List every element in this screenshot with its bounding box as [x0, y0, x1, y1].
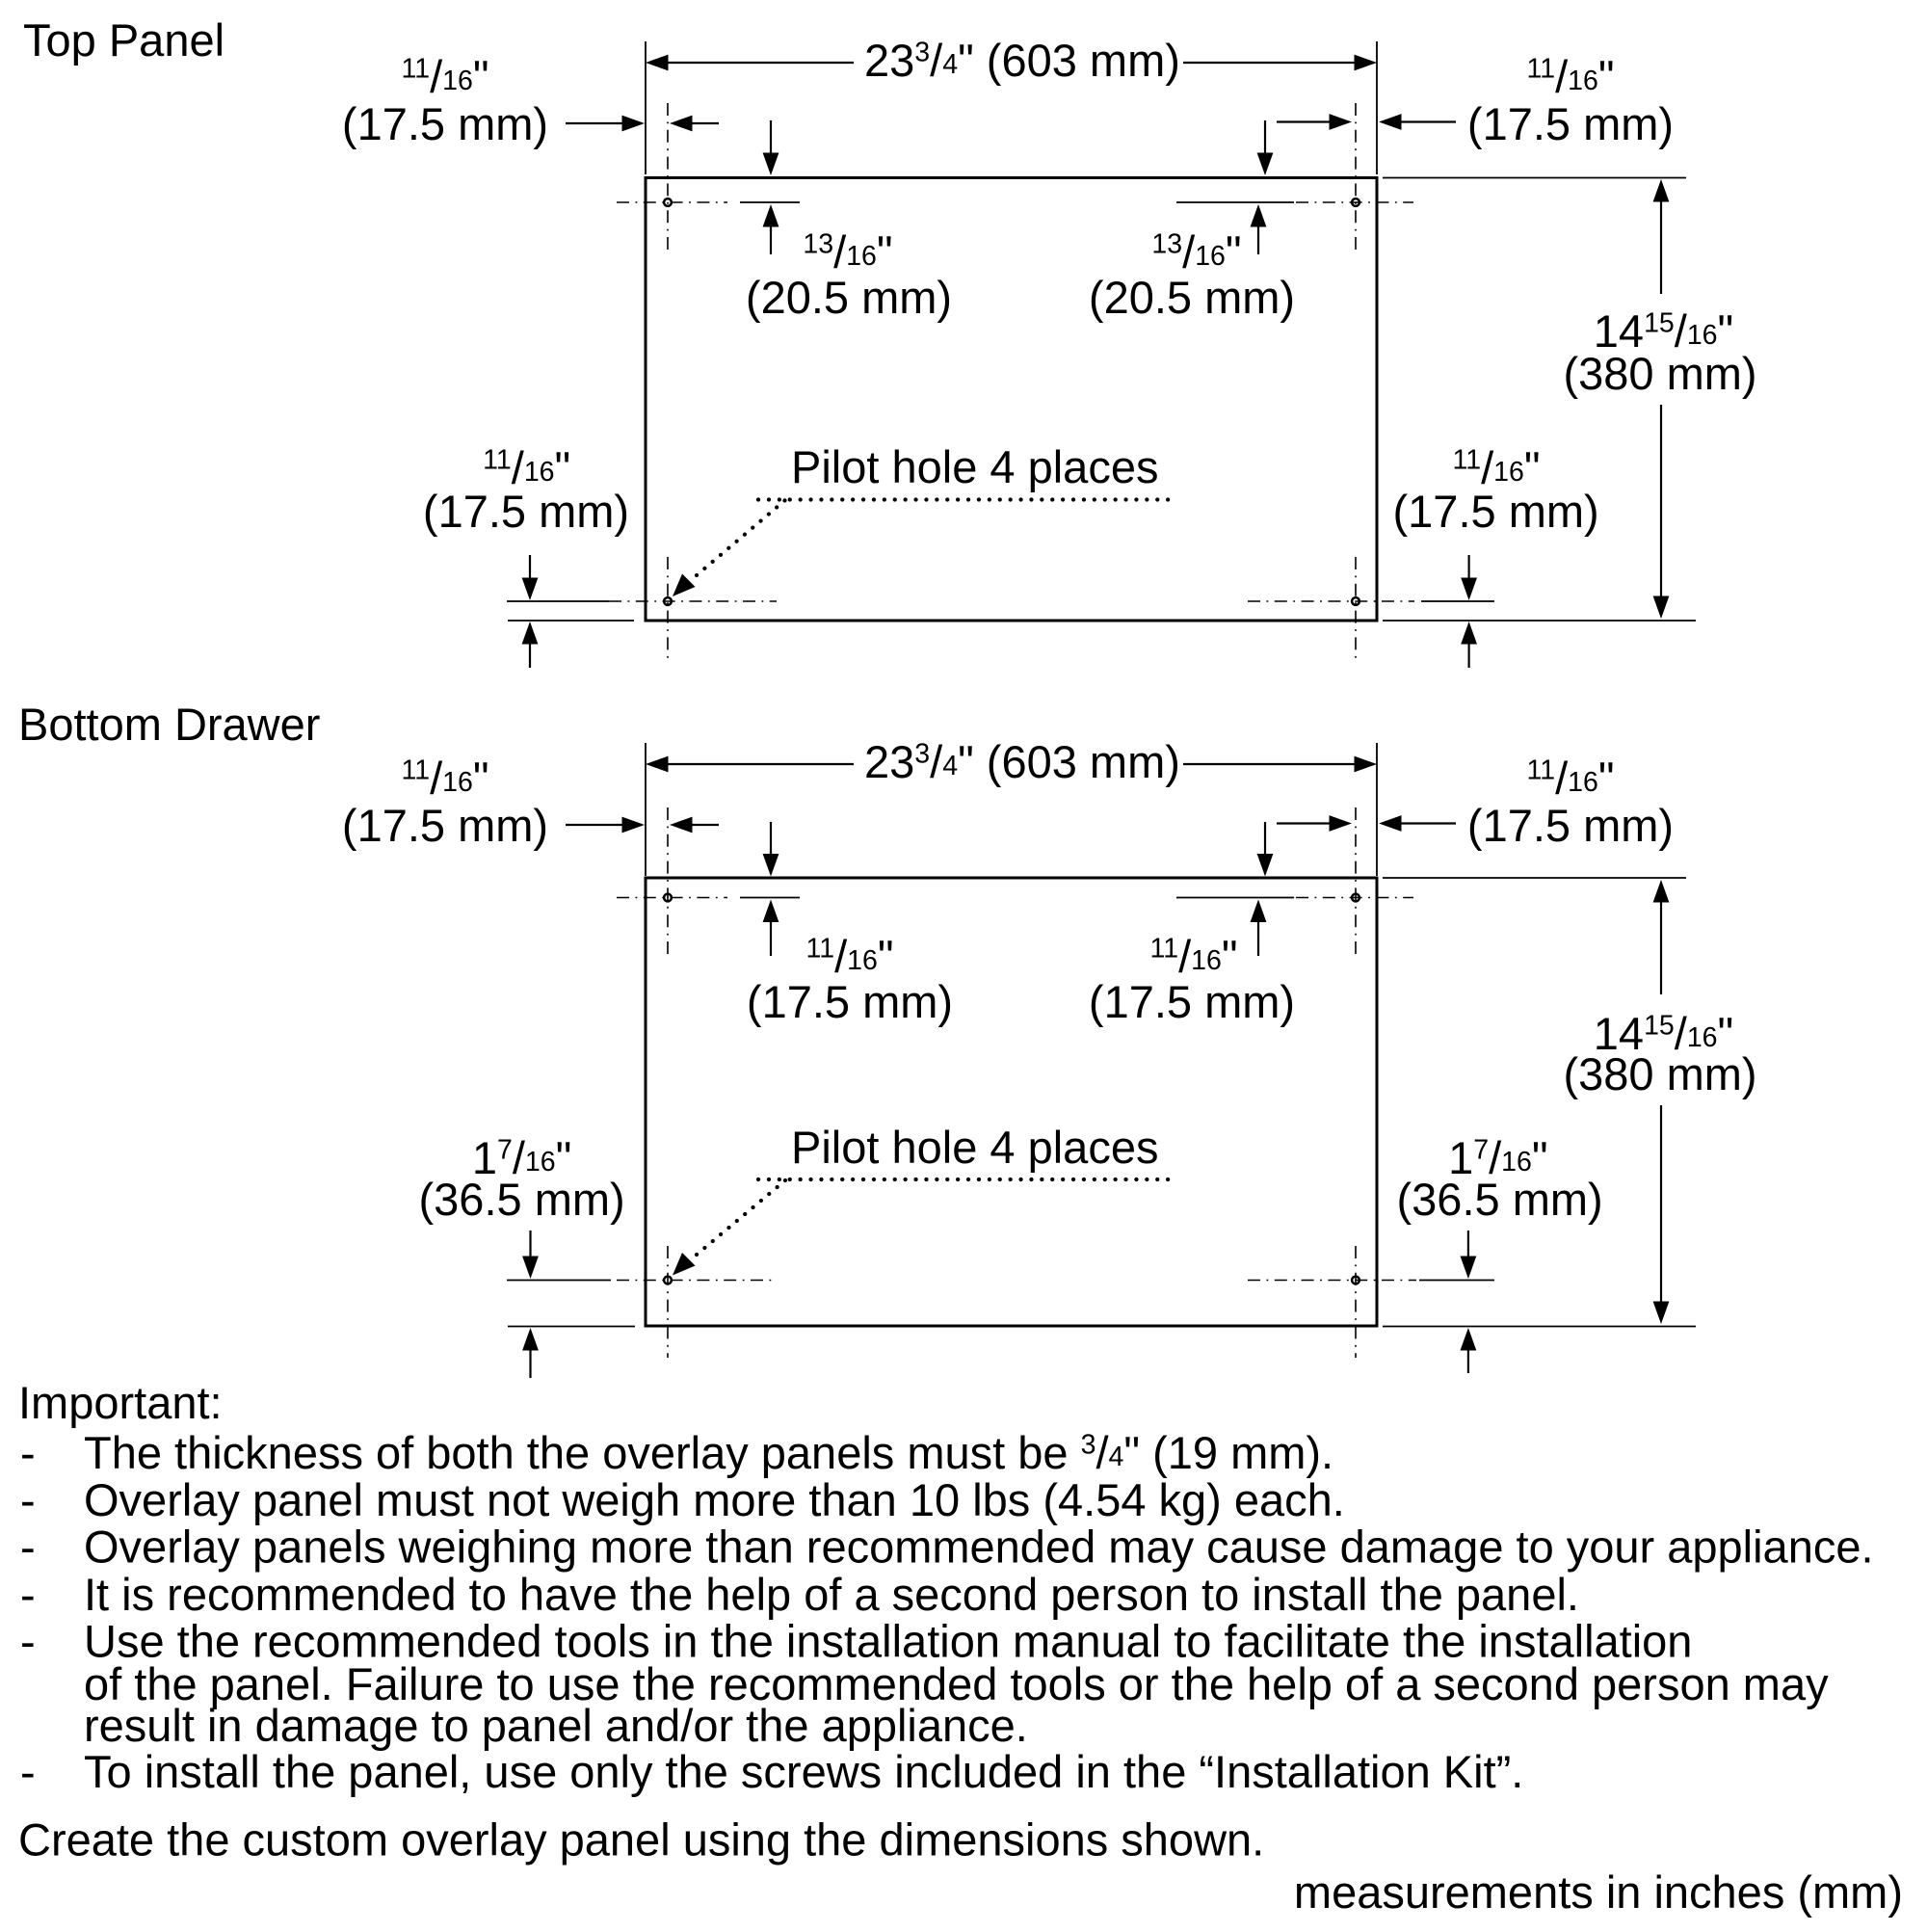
svg-text:(380 mm): (380 mm) — [1563, 348, 1756, 399]
extension line right for width dim — [1376, 41, 1378, 174]
top panel overlay rectangle — [646, 178, 1377, 622]
dimension line at bottom-right hole level — [1421, 600, 1494, 602]
svg-text:Create the custom overlay pane: Create the custom overlay panel using th… — [18, 1814, 1264, 1866]
svg-text:-: - — [20, 1746, 36, 1797]
centerline horizontal bottom-right hole — [1248, 600, 1414, 602]
svg-text:It is recommended to have the: It is recommended to have the help of a … — [84, 1569, 1579, 1620]
extension line left for width dim — [645, 41, 647, 174]
svg-text:(17.5 mm): (17.5 mm) — [1393, 486, 1599, 537]
arrow pointing left at top-left hole centerline — [670, 116, 693, 132]
up arrow to top-right hole line (drawer) — [1251, 900, 1267, 923]
up arrow to top-left hole line — [763, 204, 779, 227]
arrow pointing right at top-right hole centerline — [1330, 114, 1353, 130]
dimension line at top-right hole level (drawer) — [1176, 897, 1294, 899]
height dimension upper segment with up arrow (drawer) — [1653, 880, 1670, 903]
extension line bottom for height dim — [1383, 620, 1696, 622]
svg-text:Overlay panels weighing more t: Overlay panels weighing more than recomm… — [84, 1522, 1874, 1573]
height dimension upper segment with up arrow — [1653, 179, 1670, 202]
arrow pointing right at left extension line (drawer) — [622, 817, 646, 834]
svg-text:-: - — [20, 1474, 36, 1525]
svg-text:(17.5 mm): (17.5 mm) — [423, 486, 629, 537]
svg-text:-: - — [20, 1522, 36, 1573]
svg-text:233/4" (603 mm): 233/4" (603 mm) — [864, 35, 1180, 86]
svg-text:To install the panel, use only: To install the panel, use only the screw… — [84, 1746, 1523, 1797]
svg-text:-: - — [20, 1569, 36, 1620]
dimension line at top-right hole level — [1176, 201, 1294, 203]
svg-text:measurements in inches (mm): measurements in inches (mm) — [1294, 1866, 1903, 1918]
svg-text:(17.5 mm): (17.5 mm) — [747, 976, 953, 1027]
down arrow to bottom-left hole line (drawer) — [522, 1257, 539, 1280]
up arrow to top-right hole line — [1251, 204, 1267, 227]
pilot hole top-right (drawer) — [1352, 894, 1359, 902]
svg-text:233/4" (603 mm): 233/4" (603 mm) — [864, 736, 1180, 787]
centerline horizontal bottom-left hole — [609, 600, 777, 602]
dotted underline of pilot hole label — [758, 497, 1174, 501]
extension line left for width dim (drawer) — [645, 743, 647, 876]
pilot hole bottom-left (drawer) — [664, 1277, 672, 1284]
centerline vertical bottom-right hole — [1355, 557, 1357, 663]
centerline horizontal top-left hole — [617, 201, 727, 203]
up arrow to bottom edge right — [1461, 622, 1477, 645]
dimension line at bottom-left hole level (drawer) — [507, 1280, 611, 1282]
up arrow to top-left hole line (drawer) — [763, 900, 779, 923]
centerline vertical top-right hole — [1355, 103, 1357, 255]
centerline vertical bottom-left hole — [667, 557, 669, 663]
centerline horizontal top-left hole (drawer) — [617, 897, 727, 899]
arrow pointing left at right extension line — [1379, 114, 1402, 130]
down arrow to top edge left — [763, 153, 779, 176]
leader arrowhead at bottom-left hole (drawer) — [673, 1253, 696, 1276]
centerline vertical bottom-right hole (drawer) — [1355, 1246, 1357, 1358]
down arrow to bottom-right hole line (drawer) — [1461, 1257, 1477, 1280]
svg-text:(36.5 mm): (36.5 mm) — [419, 1174, 625, 1225]
dotted leader to bottom-left hole — [697, 500, 785, 575]
svg-text:(20.5 mm): (20.5 mm) — [1089, 272, 1295, 323]
svg-text:(17.5 mm): (17.5 mm) — [342, 98, 548, 149]
svg-text:-: - — [20, 1616, 36, 1667]
extension line top for height dim — [1383, 177, 1686, 179]
centerline horizontal top-right hole (drawer) — [1296, 897, 1413, 899]
centerline horizontal top-right hole — [1296, 201, 1413, 203]
arrow pointing left at top-left hole centerline (drawer) — [670, 817, 693, 834]
svg-text:Pilot hole 4 places: Pilot hole 4 places — [791, 1122, 1158, 1173]
extension line bottom for height dim (drawer) — [1383, 1326, 1696, 1328]
dimension line at top-left hole level — [740, 201, 800, 203]
svg-text:Pilot hole 4 places: Pilot hole 4 places — [791, 441, 1158, 492]
up arrow to bottom edge left — [522, 622, 539, 645]
svg-text:(17.5 mm): (17.5 mm) — [1467, 800, 1674, 851]
dimension line at top-left hole level (drawer) — [740, 897, 800, 899]
svg-text:(36.5 mm): (36.5 mm) — [1397, 1174, 1603, 1225]
height dimension lower segment with down arrow — [1653, 596, 1670, 620]
extension line top for height dim (drawer) — [1383, 877, 1686, 879]
pilot hole top-left — [664, 198, 672, 206]
centerline vertical bottom-left hole (drawer) — [667, 1246, 669, 1358]
svg-text:Overlay panel must not weigh m: Overlay panel must not weigh more than 1… — [84, 1474, 1345, 1525]
svg-text:(17.5 mm): (17.5 mm) — [342, 800, 548, 851]
pilot hole bottom-right — [1352, 597, 1359, 605]
pilot hole bottom-left — [664, 597, 672, 605]
centerline vertical top-left hole (drawer) — [667, 807, 669, 956]
bottom drawer overlay rectangle — [646, 878, 1377, 1326]
up arrow to bottom edge left (drawer) — [522, 1328, 539, 1351]
svg-text:(17.5 mm): (17.5 mm) — [1467, 98, 1674, 149]
width dimension line left segment with arrow — [646, 55, 669, 71]
svg-text:-: - — [20, 1427, 36, 1478]
pilot hole bottom-right (drawer) — [1352, 1277, 1359, 1284]
arrow pointing right at top-right hole centerline (drawer) — [1330, 815, 1353, 832]
svg-text:The thickness of both the over: The thickness of both the overlay panels… — [84, 1427, 1333, 1478]
svg-text:Important:: Important: — [18, 1377, 223, 1428]
extension of bottom edge to left (drawer) — [508, 1326, 635, 1328]
pilot hole top-left (drawer) — [664, 894, 672, 902]
pilot hole top-right — [1352, 198, 1359, 206]
svg-text:result in damage to panel and/: result in damage to panel and/or the app… — [84, 1700, 1028, 1751]
centerline vertical top-left hole — [667, 103, 669, 255]
arrow pointing right at left extension line — [622, 116, 646, 132]
down arrow to top edge right (drawer) — [1257, 854, 1274, 877]
dimension line at bottom-right hole level (drawer) — [1419, 1280, 1494, 1282]
centerline horizontal bottom-right hole (drawer) — [1248, 1280, 1416, 1282]
arrow pointing left at right extension line (drawer) — [1379, 815, 1402, 832]
height dimension lower segment with down arrow (drawer) — [1653, 1302, 1670, 1325]
down arrow to bottom-left hole line — [522, 578, 539, 601]
dotted leader to bottom-left hole (drawer) — [697, 1180, 785, 1255]
down arrow to top edge right — [1257, 153, 1274, 176]
svg-text:(380 mm): (380 mm) — [1563, 1048, 1756, 1099]
width dimension line right segment with arrow — [1355, 55, 1378, 71]
leader arrowhead at bottom-left hole — [673, 574, 696, 597]
extension of bottom edge to left — [508, 620, 634, 622]
up arrow to bottom edge right (drawer) — [1461, 1328, 1477, 1351]
centerline vertical top-right hole (drawer) — [1355, 807, 1357, 956]
centerline horizontal bottom-left hole (drawer) — [617, 1280, 777, 1282]
down arrow to top edge left (drawer) — [763, 854, 779, 877]
svg-text:Top Panel: Top Panel — [23, 14, 224, 66]
svg-text:(17.5 mm): (17.5 mm) — [1089, 976, 1295, 1027]
down arrow to bottom-right hole line — [1461, 578, 1477, 601]
width dimension line right segment with arrow (drawer) — [1355, 756, 1378, 773]
svg-text:(20.5 mm): (20.5 mm) — [746, 272, 952, 323]
svg-text:Bottom Drawer: Bottom Drawer — [18, 699, 320, 750]
extension line right for width dim (drawer) — [1376, 743, 1378, 876]
dotted underline of pilot hole label (drawer) — [758, 1178, 1174, 1181]
dimension line at bottom-left hole level — [507, 600, 609, 602]
width dimension line left segment with arrow (drawer) — [646, 756, 669, 773]
